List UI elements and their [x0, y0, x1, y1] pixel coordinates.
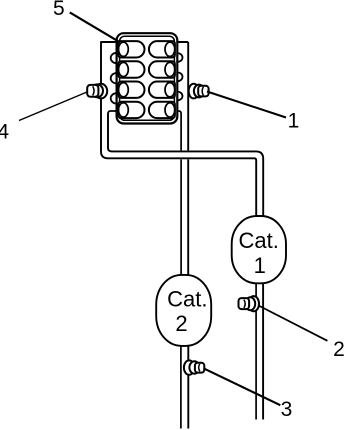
svg-text:2: 2	[175, 311, 187, 336]
cylinder port row2 right	[149, 61, 175, 77]
svg-text:1: 1	[288, 110, 300, 133]
svg-text:Cat.: Cat.	[239, 228, 279, 253]
svg-text:1: 1	[254, 253, 266, 278]
svg-text:2: 2	[333, 338, 344, 361]
cylinder port row1 left	[118, 41, 144, 57]
oxygen sensor 2 (below Cat.1)	[239, 296, 260, 311]
wire: Cat.2 pipe right line below crossing	[187, 159, 189, 276]
wire: manifold outer left edge, bottom pipe line and Cat.1 pipe left line	[101, 41, 256, 216]
svg-text:3: 3	[281, 398, 293, 421]
boss bump right 3 on engine block	[173, 92, 183, 101]
engine block inner outline	[120, 36, 175, 120]
leader line to label 2	[259, 306, 328, 341]
boss bump left 3 on engine block	[111, 93, 123, 103]
catalytic converter Cat.1 body	[232, 216, 286, 283]
catalytic converter Cat.2 body	[156, 275, 211, 346]
wire: manifold inner left line, top pipe line and Cat.1 pipe right line	[108, 114, 263, 217]
wire: Cat.2 pipe left line below crossing	[180, 159, 182, 276]
oxygen sensor 3 (below Cat.2)	[184, 360, 204, 374]
svg-text:Cat.: Cat.	[167, 287, 207, 312]
boss bump left 1 on engine block	[111, 53, 123, 63]
leader line to label 1	[207, 92, 286, 118]
cylinder port row2 left	[118, 61, 144, 77]
wire: Cat.2 outlet pipe left line	[180, 346, 182, 429]
cylinder port row1 right	[149, 41, 175, 57]
wire: Cat.1 outlet pipe right line	[262, 283, 264, 420]
wire: Cat.1 outlet pipe left line	[255, 283, 257, 420]
svg-text:4: 4	[0, 121, 9, 144]
leader line to label 5	[70, 12, 119, 41]
wire: inner top line and Cat.2 pipe left line (upper)	[108, 111, 181, 150]
wire: manifold right edge / Cat.2 pipe right line (upper)	[187, 42, 189, 150]
cylinder port row4 left	[118, 102, 144, 118]
boss bump right 2 on engine block	[173, 72, 183, 81]
cylinder port row4 right	[149, 102, 175, 118]
leader line to label 4	[19, 92, 87, 121]
wire: Cat.2 outlet pipe right line	[187, 346, 189, 429]
boss bump right 1 on engine block	[173, 53, 183, 62]
engine block outer outline	[117, 33, 178, 123]
leader line to label 3	[204, 368, 281, 405]
svg-text:5: 5	[53, 0, 65, 20]
oxygen sensor 1 (right bank front)	[189, 84, 209, 99]
wire: manifold top edge	[101, 41, 188, 43]
boss bump left 2 on engine block	[111, 73, 123, 83]
cylinder port row3 right	[149, 82, 175, 98]
oxygen sensor 4 (left bank front)	[87, 84, 107, 99]
cylinder port row3 left	[118, 82, 144, 98]
